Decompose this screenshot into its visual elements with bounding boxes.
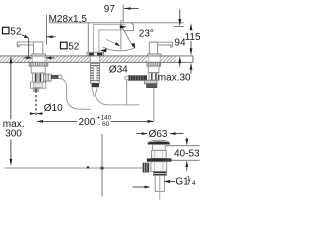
- spout base nuts: [89, 53, 94, 56]
- dim diam10: arrows: [30, 113, 35, 115]
- 23deg vertical leg: [120, 20, 122, 50]
- dim max.300: lower line: [10, 140, 12, 160]
- dim 200: right extension line: [153, 88, 155, 122]
- left valve cartridge body: [33, 73, 44, 82]
- spout inner top line: [94, 25, 126, 53]
- pop-up rod vertical drop: [126, 81, 128, 105]
- label G1 1/4: leader arrow: [170, 181, 175, 183]
- svg-text:4: 4: [192, 180, 196, 187]
- svg-text:52: 52: [10, 26, 22, 37]
- dim max.300: upper line: [10, 63, 12, 119]
- dim 40-53: bottom extension line: [164, 159, 200, 161]
- pop-up rod threaded (to right valve): [125, 75, 147, 80]
- dim 40-53: bottom arrow: [185, 160, 188, 167]
- svg-text:40-53: 40-53: [174, 148, 200, 159]
- left flexible hose (dashed): [35, 91, 37, 115]
- left valve upper block: [31, 66, 45, 73]
- dim max.30: bottom arrow: [190, 63, 193, 70]
- dim max.300: bottom arrow: [10, 159, 13, 166]
- left valve lower block: [30, 82, 45, 88]
- hose end reference line: [5, 167, 143, 169]
- dim 200: right arrow: [148, 120, 154, 123]
- waste neck: [152, 145, 165, 151]
- deck hatching: [0, 56, 177, 62]
- spout shank bottom nut: [92, 83, 99, 87]
- dim 115: line + bottom arrow: [190, 41, 192, 49]
- svg-text:200: 200: [79, 117, 96, 128]
- label square52 #2: arrow: [46, 36, 55, 38]
- 23deg diagonal leg: [121, 25, 133, 47]
- dim 97: extension line: [122, 5, 124, 23]
- svg-text:max.30: max.30: [158, 73, 191, 84]
- leader line toward spout column: [106, 40, 116, 44]
- left valve body: [33, 42, 42, 54]
- right valve cartridge body: [149, 73, 158, 81]
- 23deg arc right arrowhead: [131, 43, 135, 49]
- waste upper body: [152, 150, 167, 158]
- dim 40-53: top arrow: [186, 137, 188, 139]
- left valve hose nipple: [33, 88, 39, 91]
- dim 94: bottom arrow: [178, 56, 181, 63]
- right valve upper block: [148, 66, 159, 72]
- waste tail center line: [159, 176, 161, 200]
- dim 40-53: top extension line: [166, 145, 200, 147]
- dim 94: top arrow: [179, 9, 181, 19]
- dim 200: left line: [37, 120, 77, 122]
- svg-text:115: 115: [185, 32, 200, 43]
- right valve body: [149, 42, 157, 54]
- spout shank through deck: [90, 56, 92, 64]
- leader arrowhead at spout column: [115, 42, 121, 46]
- svg-text:23°: 23°: [139, 28, 154, 39]
- right valve mounting nut: [147, 62, 160, 66]
- 23deg leader arrowhead on spout arm: [120, 25, 127, 29]
- left valve escutcheon: [32, 54, 46, 56]
- dim 115: top arrow: [190, 23, 193, 30]
- dim max.300: top arrow: [10, 56, 13, 63]
- left valve lever bar: [17, 42, 43, 47]
- dim 200: right line: [111, 120, 154, 122]
- dim square52 #1: right arrow: [46, 57, 55, 59]
- right valve escutcheon: [148, 54, 162, 56]
- spout outer contour: [88, 23, 133, 53]
- spout threaded shank: [91, 64, 100, 84]
- deck bottom line: [0, 61, 193, 63]
- dim square52 #1: left arrow: [23, 57, 32, 59]
- left valve mounting nut: [29, 62, 48, 66]
- spout shank tip: [92, 87, 97, 96]
- waste flange dark rim: [148, 141, 169, 144]
- waste stop flange (dark band): [147, 158, 172, 161]
- svg-text:Ø63: Ø63: [149, 129, 168, 140]
- right valve lever bar: [149, 42, 172, 47]
- left connection hose curve: [61, 79, 91, 110]
- pop-up rod vertical: [101, 134, 103, 197]
- dim 94: extension line: [174, 25, 184, 27]
- spout base plate: [87, 52, 104, 55]
- waste tail tube: [155, 175, 164, 191]
- right valve bottom fitting: [145, 80, 157, 84]
- svg-text:52: 52: [68, 41, 80, 52]
- label square52 #2: extension line: [45, 15, 47, 45]
- svg-text:M28x1,5: M28x1,5: [49, 14, 88, 25]
- svg-text:Ø10: Ø10: [44, 103, 63, 114]
- label square52 #2: square symbol: [61, 42, 68, 49]
- left valve side outlet box: [44, 74, 52, 81]
- junction dot at rod: [100, 166, 103, 169]
- label square52 #1: leader: [22, 35, 26, 37]
- svg-text:97: 97: [104, 4, 116, 15]
- 23deg arc left arrowhead: [100, 48, 106, 52]
- right connection pipe curve: [96, 97, 139, 105]
- dim 97: dimension line + arrow: [124, 8, 139, 10]
- spout arm bottom / neck right edge: [99, 30, 124, 52]
- dim diam63: left line+arrow: [136, 133, 147, 135]
- waste outlet nut: [143, 163, 150, 173]
- spout top long line (M28 underline + top edge + height extension line): [49, 22, 184, 24]
- dim diam63: right arrow+line: [170, 132, 176, 135]
- left valve deck shank edges: [32, 56, 34, 62]
- right valve deck shank edges: [147, 56, 149, 62]
- svg-text:Ø34: Ø34: [109, 65, 128, 76]
- left valve threaded rod: [51, 75, 62, 79]
- svg-text:300: 300: [5, 129, 22, 140]
- dim 200: left arrow: [37, 120, 43, 123]
- waste flange: [148, 140, 170, 144]
- label square52 #1: square symbol: [3, 27, 10, 34]
- waste tail leader arrow: [133, 186, 145, 188]
- 23deg arc: [103, 47, 135, 51]
- svg-text:- 60: - 60: [98, 121, 110, 128]
- waste lower body: [151, 162, 167, 172]
- deck top line: [0, 55, 193, 57]
- junction dot small: [87, 166, 89, 168]
- waste thread bands: [153, 172, 166, 176]
- deck right edge: [192, 56, 194, 62]
